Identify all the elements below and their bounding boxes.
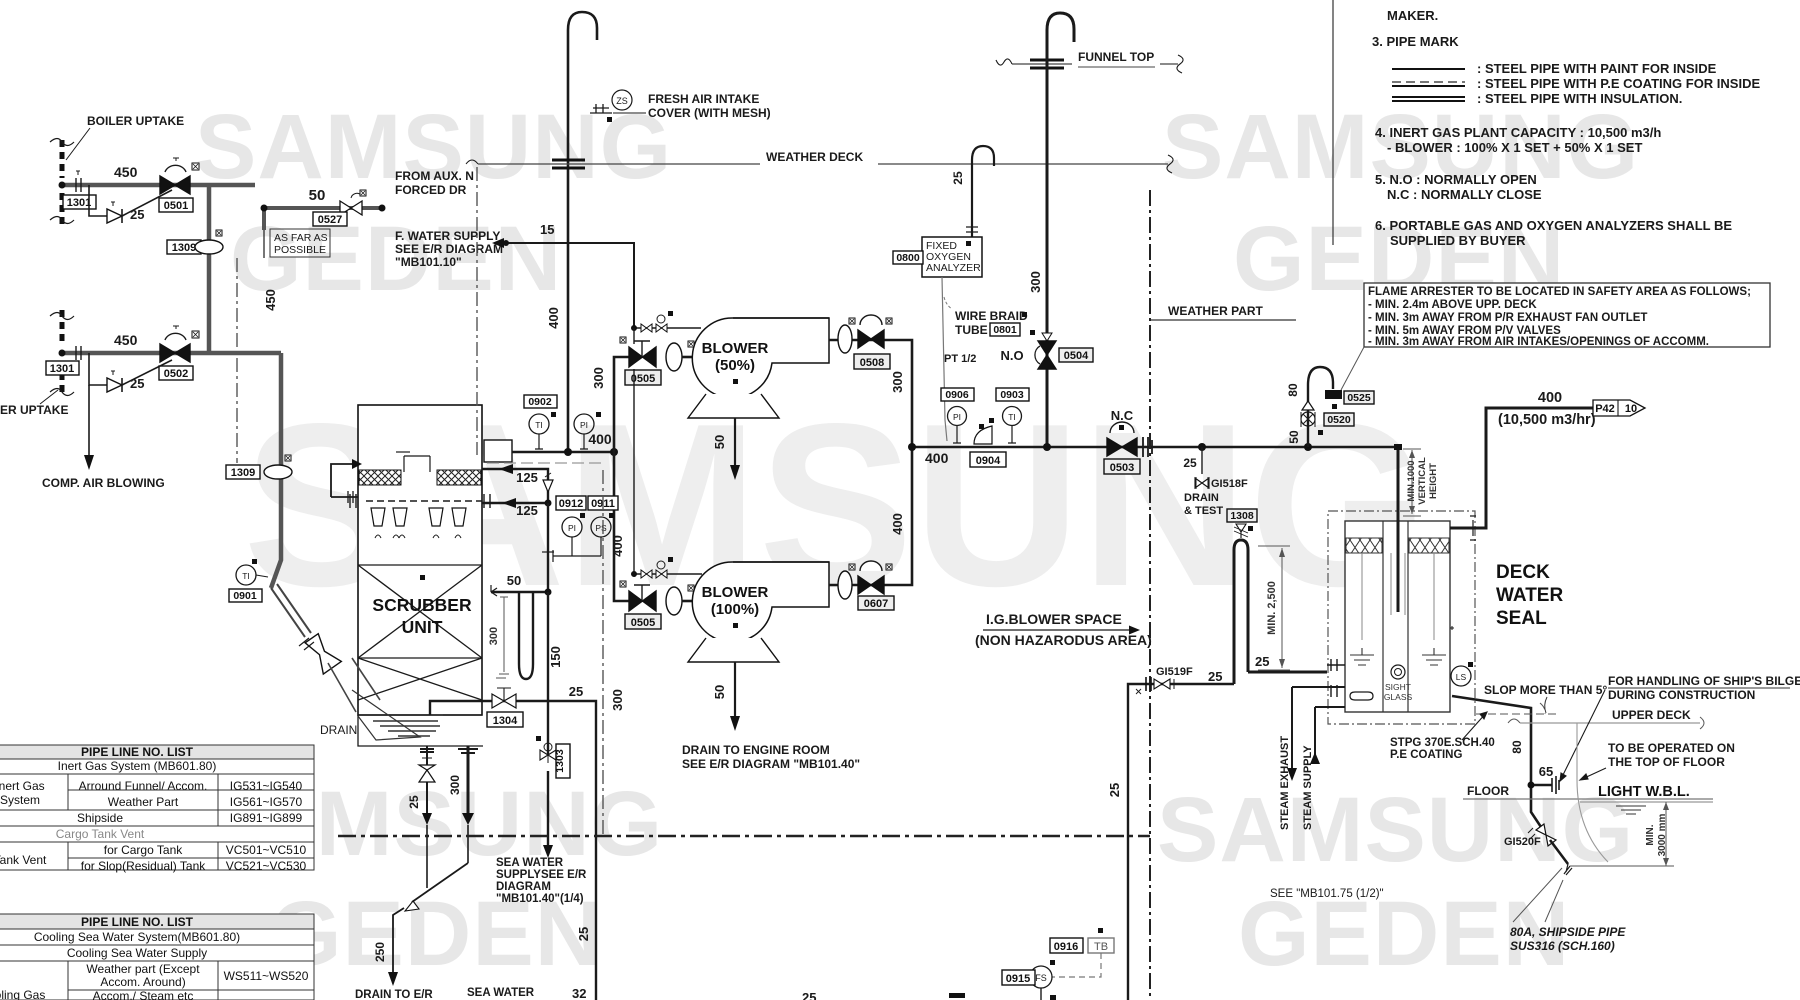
label SCRUBBER UNIT bbox=[372, 595, 472, 637]
svg-text:WATER: WATER bbox=[1496, 585, 1563, 606]
boundary dash-dot x237 bbox=[236, 258, 238, 463]
svg-text:TB: TB bbox=[1094, 941, 1108, 953]
pipe 0520 flame arrester branch bbox=[1286, 367, 1333, 447]
pipe 25 bypass 1 bbox=[89, 185, 172, 222]
instrument 0904 pressure element bbox=[970, 418, 1006, 467]
boundary dash-dot weather part bbox=[1149, 190, 1151, 1000]
svg-text:0503: 0503 bbox=[1110, 462, 1134, 474]
svg-text:for Slop(Residual) Tank: for Slop(Residual) Tank bbox=[81, 859, 207, 873]
svg-text:TI: TI bbox=[242, 571, 250, 581]
instrument ZS circle bbox=[612, 90, 632, 110]
svg-text:VC501~VC510: VC501~VC510 bbox=[226, 843, 307, 857]
wire sample line to analyzer bbox=[942, 277, 952, 441]
svg-text:80: 80 bbox=[1286, 383, 1300, 397]
svg-text:(50%): (50%) bbox=[715, 357, 755, 374]
svg-text:F. WATER SUPPLY: F. WATER SUPPLY bbox=[395, 229, 500, 243]
pipe 65 drain stub bbox=[1528, 764, 1560, 794]
svg-text:PI: PI bbox=[568, 523, 576, 533]
svg-text:BOILER UPTAKE: BOILER UPTAKE bbox=[87, 114, 184, 128]
svg-text:PIPE LINE NO. LIST: PIPE LINE NO. LIST bbox=[81, 745, 194, 759]
pipe inlet duct diagonal w/ venturi bbox=[271, 584, 420, 740]
svg-text:300: 300 bbox=[1028, 271, 1043, 293]
svg-text:SEA WATER: SEA WATER bbox=[496, 857, 564, 869]
svg-text:Weather part (Except: Weather part (Except bbox=[86, 962, 200, 976]
pipe steam supply bbox=[1302, 707, 1345, 830]
pipe 50 overflow with loop seal bbox=[491, 573, 552, 679]
svg-text:SCRUBBER: SCRUBBER bbox=[372, 595, 472, 615]
scrubber spray nozzles bbox=[371, 508, 466, 538]
valve 0520 bbox=[1301, 401, 1354, 435]
svg-text:DIAGRAM: DIAGRAM bbox=[496, 881, 551, 893]
svg-text:SEE E/R DIAGRAM: SEE E/R DIAGRAM bbox=[395, 242, 503, 256]
fitting mesh cover bbox=[590, 104, 612, 122]
valve 1304 bbox=[487, 688, 523, 727]
pipe blower 50% discharge bbox=[829, 325, 912, 447]
svg-text:COVER (WITH MESH): COVER (WITH MESH) bbox=[648, 106, 771, 120]
svg-text:(100%): (100%) bbox=[711, 601, 759, 618]
svg-text:65: 65 bbox=[1539, 764, 1553, 779]
svg-text:400: 400 bbox=[1538, 390, 1562, 406]
pipe 50 from aux bbox=[261, 187, 386, 230]
svg-text:450: 450 bbox=[263, 289, 278, 311]
svg-text:0912: 0912 bbox=[559, 498, 583, 510]
svg-text:0504: 0504 bbox=[1064, 350, 1089, 362]
svg-text:450: 450 bbox=[114, 332, 138, 348]
node flag P42 10 bbox=[1593, 400, 1645, 416]
label FLOOR + floor line bbox=[1463, 784, 1713, 799]
svg-text:Cargo Tank Vent: Cargo Tank Vent bbox=[56, 827, 145, 841]
svg-text:Accom./ Steam etc: Accom./ Steam etc bbox=[93, 989, 194, 1000]
boundary dash-dot jog y463 bbox=[487, 462, 603, 464]
instrument PS 0911 bbox=[591, 513, 614, 556]
svg-text:50: 50 bbox=[712, 685, 727, 699]
svg-text:TI: TI bbox=[1008, 412, 1016, 422]
svg-text:AS FAR AS: AS FAR AS bbox=[274, 232, 328, 244]
valve 0527 gate bbox=[340, 190, 366, 215]
watermark center giant SAMSUNG bbox=[243, 372, 1429, 639]
fitting slip joint bbox=[1143, 437, 1152, 457]
pipe 25 analyzer gooseneck bbox=[951, 146, 994, 237]
svg-text:DRAIN TO ENGINE ROOM: DRAIN TO ENGINE ROOM bbox=[682, 743, 830, 757]
instrument PI 0906 bbox=[941, 388, 974, 443]
svg-text:GLASS: GLASS bbox=[1384, 692, 1413, 702]
svg-text:0525: 0525 bbox=[1347, 392, 1371, 404]
svg-text:TO BE OPERATED ON: TO BE OPERATED ON bbox=[1608, 741, 1735, 755]
boundary dash-dot deck y836 bbox=[338, 835, 1150, 838]
label 80A SHIPSIDE PIPE bbox=[1510, 868, 1626, 953]
svg-text:0916: 0916 bbox=[1054, 941, 1078, 953]
svg-text:: STEEL PIPE WITH PAINT FOR IN: : STEEL PIPE WITH PAINT FOR INSIDE bbox=[1477, 61, 1717, 76]
tag 1308 relief bbox=[1227, 509, 1257, 538]
svg-text:300: 300 bbox=[890, 371, 905, 393]
svg-text:(NON HAZARODUS AREA): (NON HAZARODUS AREA) bbox=[975, 632, 1152, 648]
svg-text:0520: 0520 bbox=[1327, 414, 1351, 426]
svg-text:0501: 0501 bbox=[164, 200, 188, 212]
note 6 portable analyzers bbox=[1375, 218, 1732, 248]
svg-text:WEATHER PART: WEATHER PART bbox=[1168, 304, 1264, 318]
pipe 25 bypass 2 bbox=[89, 353, 172, 391]
label LIGHT W.B.L. bbox=[1580, 784, 1713, 814]
pipe blower 100% discharge bbox=[829, 447, 912, 599]
pipe 400 fresh air intake riser bbox=[546, 12, 597, 452]
equipment fixed oxygen analyzer bbox=[922, 237, 982, 277]
svg-text:TI: TI bbox=[535, 420, 543, 430]
pipe 300 IG vent riser w/ gooseneck bbox=[1028, 13, 1074, 447]
equipment blower 100% bbox=[688, 562, 829, 662]
svg-text:50: 50 bbox=[507, 573, 521, 588]
instrument TI 0901 bbox=[229, 559, 268, 602]
svg-text:25: 25 bbox=[569, 684, 583, 699]
svg-text:1308: 1308 bbox=[1230, 510, 1254, 522]
tag 1301 (lower) bbox=[46, 361, 79, 375]
svg-text:SEAL: SEAL bbox=[1496, 608, 1547, 629]
svg-text:N.O: N.O bbox=[1000, 348, 1023, 363]
svg-text:0502: 0502 bbox=[164, 368, 188, 380]
svg-text:FS: FS bbox=[1035, 973, 1047, 983]
svg-text:450: 450 bbox=[114, 164, 138, 180]
svg-text:0903: 0903 bbox=[1000, 389, 1024, 401]
pipe blower 50% drain bbox=[712, 418, 740, 480]
svg-text:PS: PS bbox=[595, 523, 607, 533]
pipe GI518F drain bbox=[1183, 447, 1248, 517]
pipe GI519F drain header bbox=[1107, 684, 1234, 1000]
label UPPER DECK + deck line bbox=[1508, 708, 1704, 729]
svg-text:25: 25 bbox=[1183, 456, 1197, 470]
equipment deck water seal vessel bbox=[1345, 521, 1450, 712]
note AS FAR AS POSSIBLE bbox=[264, 229, 330, 258]
tag 1309 (lower) bbox=[226, 455, 292, 479]
svg-text:SEE E/R DIAGRAM "MB101.40": SEE E/R DIAGRAM "MB101.40" bbox=[682, 757, 860, 771]
label WIRE BRAID TUBE bbox=[955, 309, 1028, 337]
steam coil bbox=[1345, 688, 1373, 704]
svg-text:0505: 0505 bbox=[631, 617, 655, 629]
svg-text:STPG 370E.SCH.40: STPG 370E.SCH.40 bbox=[1390, 737, 1495, 749]
svg-text:0902: 0902 bbox=[528, 396, 552, 408]
sight glass bbox=[1384, 665, 1413, 702]
svg-text:Cooling Sea Water System(MB60: Cooling Sea Water System(MB601.80) bbox=[34, 930, 240, 944]
svg-text:PIPE LINE NO. LIST: PIPE LINE NO. LIST bbox=[81, 915, 194, 929]
pipe suction drop to blower 100% bbox=[610, 452, 629, 601]
svg-text:4. INERT GAS PLANT CAPACITY :: 4. INERT GAS PLANT CAPACITY : 10,500 m3/… bbox=[1375, 125, 1661, 140]
pipe seal overboard slope bbox=[1452, 696, 1543, 830]
pipe seal water branch 100% bbox=[631, 328, 702, 578]
svg-text:0508: 0508 bbox=[860, 357, 884, 369]
svg-text:MIN. 2,500: MIN. 2,500 bbox=[1266, 581, 1278, 635]
boundary dash-dot x603 bbox=[602, 470, 604, 836]
valve 0502 butterfly w/ actuator bbox=[160, 326, 199, 362]
svg-text:N.C: N.C bbox=[1111, 408, 1134, 423]
pipe 125 spray water upper bbox=[482, 464, 548, 503]
watermark top-right GEDEN bbox=[1233, 207, 1565, 312]
svg-text:Tank Vent: Tank Vent bbox=[0, 853, 47, 867]
pipe shipside discharge bbox=[1550, 840, 1572, 875]
label F. WATER SUPPLY bbox=[395, 229, 503, 269]
node boiler uptake 2 stack (dashed) bbox=[50, 310, 74, 396]
svg-text:3000 mm: 3000 mm bbox=[1657, 813, 1668, 856]
pipe 250 drain to E/R bbox=[373, 863, 468, 986]
pipe steam exhaust bbox=[1279, 687, 1345, 830]
svg-text:PI: PI bbox=[953, 412, 961, 422]
svg-text:0904: 0904 bbox=[976, 455, 1001, 467]
svg-text:1309: 1309 bbox=[172, 242, 196, 254]
svg-text:Cooling Sea Water Supply: Cooling Sea Water Supply bbox=[67, 946, 207, 960]
valve 0508 butterfly w/ actuator bbox=[849, 315, 892, 369]
pipe suction riser to blower 50% bbox=[591, 357, 629, 452]
watermark bottom-right GEDEN bbox=[1238, 882, 1570, 987]
svg-text:FRESH AIR INTAKE: FRESH AIR INTAKE bbox=[648, 92, 759, 106]
svg-text:1309: 1309 bbox=[231, 467, 255, 479]
svg-text:WIRE BRAID: WIRE BRAID bbox=[955, 309, 1028, 323]
svg-text:125: 125 bbox=[516, 470, 538, 485]
pipe seal water branch 50% bbox=[631, 311, 701, 332]
label DRAIN TO ENGINE ROOM bbox=[682, 743, 860, 771]
instrument LS bbox=[1450, 626, 1473, 686]
svg-text:300: 300 bbox=[488, 627, 500, 645]
instrument FS 0915 / TB 0916 bbox=[1002, 928, 1114, 1000]
svg-text:SEE "MB101.75 (1/2)": SEE "MB101.75 (1/2)" bbox=[1270, 888, 1384, 900]
valve sump outlet bbox=[419, 758, 435, 782]
svg-text:0901: 0901 bbox=[233, 590, 257, 602]
label STPG coating bbox=[1390, 712, 1495, 761]
pipe 450 uptake line 1 bbox=[59, 164, 256, 192]
svg-text:BLOWER: BLOWER bbox=[702, 584, 769, 601]
note 4 capacity bbox=[1375, 125, 1661, 155]
svg-text:IG561~IG570: IG561~IG570 bbox=[230, 795, 303, 809]
svg-text:ER UPTAKE: ER UPTAKE bbox=[0, 403, 68, 417]
valve 0607 butterfly w/ actuator bbox=[849, 561, 894, 610]
svg-text:SUS316 (SCH.160): SUS316 (SCH.160) bbox=[1510, 939, 1615, 953]
svg-text:400: 400 bbox=[890, 513, 905, 535]
valve 1303 bbox=[536, 736, 570, 778]
svg-text:"MB101.40"(1/4): "MB101.40"(1/4) bbox=[496, 893, 584, 905]
pipe deck seal drain loop bbox=[1234, 540, 1248, 684]
pipe blower 100% drain bbox=[712, 662, 740, 731]
instrument PI (suction) bbox=[574, 412, 601, 449]
pipe demister wash inlet bbox=[331, 459, 362, 503]
svg-text:SUPPLIED BY BUYER: SUPPLIED BY BUYER bbox=[1390, 233, 1526, 248]
svg-text:0801: 0801 bbox=[993, 324, 1017, 336]
svg-text:MIN.1000: MIN.1000 bbox=[1406, 460, 1417, 501]
svg-text:for Cargo Tank: for Cargo Tank bbox=[104, 843, 183, 857]
svg-text:LIGHT W.B.L.: LIGHT W.B.L. bbox=[1598, 784, 1690, 800]
svg-text:LS: LS bbox=[1456, 672, 1467, 682]
svg-text:25: 25 bbox=[802, 990, 816, 1000]
watermark bottom-left SAMSUNG bbox=[186, 772, 663, 877]
boundary dash-dot x477 bbox=[476, 167, 478, 455]
dimension MIN 2,500 bbox=[1258, 546, 1290, 670]
svg-text:400: 400 bbox=[588, 431, 612, 447]
svg-text:POSSIBLE: POSSIBLE bbox=[274, 244, 326, 256]
pipe 25 into seal bbox=[1208, 654, 1327, 684]
instrument TI 0902 bbox=[524, 395, 557, 449]
tag 0912 0911 bbox=[556, 496, 618, 510]
pipe seal inlet dip tube bbox=[1394, 444, 1402, 612]
scrubber sump bbox=[358, 715, 483, 746]
pipe 125 spray water lower bbox=[482, 498, 552, 518]
label SEA WATER SUPPLY bbox=[496, 857, 587, 905]
svg-text:3. PIPE MARK: 3. PIPE MARK bbox=[1372, 34, 1459, 49]
svg-text:FLOOR: FLOOR bbox=[1467, 784, 1509, 798]
tag 0800 bbox=[893, 251, 923, 264]
svg-text:125: 125 bbox=[516, 503, 538, 518]
svg-text:Shipside: Shipside bbox=[77, 811, 123, 825]
svg-text:6. PORTABLE GAS AND OXYGEN ANA: 6. PORTABLE GAS AND OXYGEN ANALYZERS SHA… bbox=[1375, 218, 1732, 233]
svg-text:SUPPLYSEE E/R: SUPPLYSEE E/R bbox=[496, 869, 587, 881]
svg-text:25: 25 bbox=[1208, 669, 1222, 684]
svg-text:1304: 1304 bbox=[493, 715, 518, 727]
tag 0527 bbox=[313, 212, 347, 226]
watermark bottom-left GEDEN bbox=[270, 882, 602, 987]
svg-text:BLOWER: BLOWER bbox=[702, 340, 769, 357]
svg-text:0915: 0915 bbox=[1006, 973, 1030, 985]
svg-text:400: 400 bbox=[610, 535, 625, 557]
svg-text:WEATHER DECK: WEATHER DECK bbox=[766, 150, 863, 164]
svg-text:Weather Part: Weather Part bbox=[108, 795, 179, 809]
svg-text:& TEST: & TEST bbox=[1184, 505, 1223, 517]
watermark top-left GEDEN bbox=[230, 207, 562, 312]
svg-text:GI520F: GI520F bbox=[1504, 836, 1541, 848]
svg-text:GI519F: GI519F bbox=[1156, 666, 1193, 678]
svg-text:0906: 0906 bbox=[945, 389, 969, 401]
valve GI519F bbox=[1136, 666, 1193, 694]
svg-text:UNIT: UNIT bbox=[402, 617, 443, 637]
label I.G.BLOWER SPACE bbox=[975, 611, 1152, 648]
watermark bottom-right SAMSUNG bbox=[1157, 778, 1634, 883]
label ER UPTAKE bbox=[0, 390, 68, 417]
svg-text:- MIN. 3m AWAY FROM AIR INTAKE: - MIN. 3m AWAY FROM AIR INTAKES/OPENINGS… bbox=[1368, 336, 1709, 348]
ship hull line bbox=[1577, 723, 1608, 862]
svg-text:N.C : NORMALLY CLOSE: N.C : NORMALLY CLOSE bbox=[1387, 187, 1542, 202]
valve 0501 butterfly w/ actuator bbox=[160, 158, 199, 194]
svg-text:DRAIN: DRAIN bbox=[320, 723, 357, 737]
svg-text:80A, SHIPSIDE PIPE: 80A, SHIPSIDE PIPE bbox=[1510, 925, 1626, 939]
svg-text:(10,500 m3/hr): (10,500 m3/hr) bbox=[1498, 412, 1596, 428]
svg-text:FORCED DR: FORCED DR bbox=[395, 183, 467, 197]
svg-text:150: 150 bbox=[548, 646, 563, 668]
svg-text:400: 400 bbox=[546, 307, 561, 329]
svg-text:0800: 0800 bbox=[896, 252, 920, 264]
deck seal water levels bbox=[1350, 648, 1446, 665]
svg-text:25: 25 bbox=[951, 171, 965, 185]
svg-text:25: 25 bbox=[1255, 654, 1269, 669]
svg-text:32: 32 bbox=[572, 986, 586, 1000]
svg-text:1301: 1301 bbox=[67, 197, 91, 209]
svg-text:System: System bbox=[0, 793, 40, 807]
svg-text:I.G.BLOWER SPACE: I.G.BLOWER SPACE bbox=[986, 611, 1122, 627]
svg-text:0527: 0527 bbox=[318, 214, 342, 226]
watermark top-right SAMSUNG bbox=[1162, 95, 1639, 200]
svg-text:300: 300 bbox=[448, 775, 462, 795]
instrument PI 0912 bbox=[562, 513, 585, 556]
svg-text:: STEEL PIPE WITH INSULATION.: : STEEL PIPE WITH INSULATION. bbox=[1477, 91, 1682, 106]
svg-text:50: 50 bbox=[712, 435, 727, 449]
svg-text:25: 25 bbox=[576, 927, 591, 941]
valve GI520F shipside bbox=[1504, 824, 1556, 848]
pipe 1304 drain line 25 bbox=[430, 684, 596, 1000]
pipe riser x209 bbox=[207, 185, 212, 353]
svg-text:25: 25 bbox=[407, 795, 421, 809]
svg-text:P.E COATING: P.E COATING bbox=[1390, 749, 1462, 761]
scrubber spray header (dashed) bbox=[350, 494, 490, 508]
label FOR HANDLING BILGE bbox=[1560, 674, 1800, 781]
svg-text:DRAIN: DRAIN bbox=[1184, 492, 1219, 504]
node weather deck line bbox=[466, 150, 1173, 173]
svg-text:Accom. Around): Accom. Around) bbox=[100, 975, 185, 989]
svg-text:FUNNEL TOP: FUNNEL TOP bbox=[1078, 50, 1154, 64]
pipe main discharge header bbox=[908, 443, 1398, 466]
pipe 150 sea water line bbox=[543, 592, 563, 858]
svg-text:Inert Gas: Inert Gas bbox=[0, 779, 45, 793]
svg-text:0607: 0607 bbox=[864, 598, 888, 610]
svg-text:SLOP MORE THAN 5°: SLOP MORE THAN 5° bbox=[1484, 683, 1607, 697]
note 5 NO NC bbox=[1375, 172, 1542, 202]
svg-text:25: 25 bbox=[130, 207, 144, 222]
dimension 300 loop seal bbox=[488, 597, 509, 678]
svg-text:5. N.O : NORMALLY OPEN: 5. N.O : NORMALLY OPEN bbox=[1375, 172, 1537, 187]
pipe riser x271 to scrubber bbox=[263, 289, 281, 588]
label BOILER UPTAKE bbox=[66, 114, 184, 160]
svg-text:MAKER.: MAKER. bbox=[1387, 8, 1438, 23]
svg-text:400: 400 bbox=[925, 450, 949, 466]
label TO BE OPERATED bbox=[1580, 741, 1735, 780]
tag 0502 bbox=[159, 366, 193, 380]
node boiler uptake 1 stack (dashed) bbox=[50, 139, 74, 225]
svg-text:300: 300 bbox=[610, 689, 625, 711]
pipe 15 f.water supply bbox=[492, 222, 634, 328]
svg-text:SIGHT: SIGHT bbox=[1385, 682, 1411, 692]
valve 0504 N.O bbox=[1000, 330, 1093, 369]
note 3 PIPE MARK bbox=[1372, 34, 1760, 106]
valve relief small at 125 corner bbox=[543, 473, 553, 492]
tag 1301 (upper) bbox=[63, 195, 96, 209]
svg-text:IG531~IG540: IG531~IG540 bbox=[230, 779, 303, 793]
svg-text:- MIN. 3m AWAY FROM P/R EXHAUS: - MIN. 3m AWAY FROM P/R EXHAUST FAN OUTL… bbox=[1368, 312, 1647, 324]
svg-text:DRAIN TO E/R: DRAIN TO E/R bbox=[355, 989, 433, 1000]
instrument TI 0903 bbox=[979, 388, 1029, 443]
pipe instrument header bbox=[542, 503, 601, 592]
svg-text:GI518F: GI518F bbox=[1211, 478, 1248, 490]
svg-text:HEIGHT: HEIGHT bbox=[1428, 463, 1439, 499]
svg-text:FOR HANDLING OF SHIP'S BILGE: FOR HANDLING OF SHIP'S BILGE bbox=[1608, 674, 1800, 688]
tag 0501 bbox=[159, 198, 193, 212]
svg-text:STEAM SUPPLY: STEAM SUPPLY bbox=[1302, 745, 1314, 830]
svg-text:: STEEL PIPE WITH P.E COATING: : STEEL PIPE WITH P.E COATING FOR INSIDE bbox=[1477, 76, 1760, 91]
notes column divider bbox=[1332, 0, 1334, 245]
svg-text:300: 300 bbox=[591, 367, 606, 389]
valve bypass 2 check bbox=[107, 371, 122, 392]
label WEATHER PART bbox=[1150, 304, 1296, 320]
svg-text:250: 250 bbox=[373, 942, 387, 962]
svg-text:oling Gas: oling Gas bbox=[0, 988, 45, 1000]
svg-text:Arround Funnel/ Accom.: Arround Funnel/ Accom. bbox=[79, 779, 208, 793]
svg-text:ZS: ZS bbox=[616, 96, 628, 106]
svg-text:PI: PI bbox=[580, 420, 588, 430]
svg-text:COMP. AIR BLOWING: COMP. AIR BLOWING bbox=[42, 476, 165, 490]
deck seal left nozzles bbox=[1327, 659, 1345, 697]
flame arrester 0525 bbox=[1325, 390, 1374, 409]
equipment scrubber unit shell bbox=[358, 405, 482, 715]
svg-text:ANALYZER: ANALYZER bbox=[926, 262, 981, 274]
label FROM AUX FORCED DR bbox=[395, 169, 474, 197]
svg-text:P42: P42 bbox=[1595, 403, 1615, 415]
scrubber sump outlet 300 bbox=[448, 746, 478, 863]
svg-text:Inert Gas System (MB601.80): Inert Gas System (MB601.80) bbox=[58, 759, 217, 773]
svg-text:"MB101.10": "MB101.10" bbox=[395, 255, 462, 269]
svg-text:SEA WATER: SEA WATER bbox=[467, 987, 535, 999]
tag 1309 (upper) bbox=[167, 230, 223, 254]
label DECK WATER SEAL bbox=[1496, 562, 1563, 629]
svg-text:DURING CONSTRUCTION: DURING CONSTRUCTION bbox=[1608, 688, 1755, 702]
